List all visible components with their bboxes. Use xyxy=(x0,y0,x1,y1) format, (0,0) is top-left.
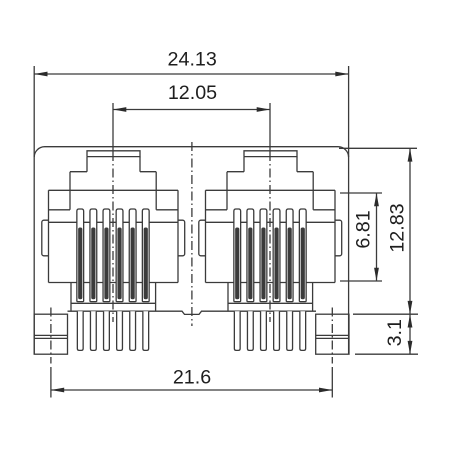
center line of part xyxy=(191,142,193,326)
left mounting post xyxy=(34,314,67,354)
right post board lines xyxy=(316,335,349,338)
arrow 24.13 left xyxy=(34,72,47,77)
solder leg at x=93.35 xyxy=(90,311,96,350)
contact slot at x=106.45 xyxy=(103,209,110,302)
shelf line xyxy=(49,221,179,223)
right jack J2 opening (copy) xyxy=(199,151,342,351)
contact slot at x=132.65 xyxy=(129,209,136,302)
dim 21.6 line xyxy=(51,389,332,391)
contact slot at x=145.75 xyxy=(142,209,149,302)
svg-text:12.83: 12.83 xyxy=(387,203,409,252)
contact slot at x=93.35 xyxy=(90,209,97,302)
center line right jack xyxy=(269,103,271,152)
contact wire at x=106.45 xyxy=(104,228,108,300)
connector body outline xyxy=(34,147,348,355)
contact wire at x=93.35 xyxy=(91,228,95,300)
latch tab slot xyxy=(87,151,140,157)
contact wire at x=145.75 xyxy=(144,228,148,300)
dim 6.81 line xyxy=(376,193,378,281)
lower contact cavity floor xyxy=(71,302,156,304)
arrow 3.1 top xyxy=(408,314,413,327)
svg-text:6.81: 6.81 xyxy=(353,210,375,248)
opening bottom edge xyxy=(49,282,179,284)
opening top edge xyxy=(49,189,179,191)
solder leg at x=106.45 xyxy=(104,311,110,350)
svg-text:24.13: 24.13 xyxy=(168,49,217,71)
arrow 12.05 left xyxy=(113,107,126,112)
center line left post xyxy=(50,308,52,364)
solder leg at x=145.75 xyxy=(143,311,149,350)
lower contact cavity walls xyxy=(71,283,156,312)
arrow 12.83 top xyxy=(408,148,413,161)
dim 3.1 witness line xyxy=(355,353,418,355)
dim 12.83 line xyxy=(409,148,411,314)
contact slot at x=80.25 xyxy=(77,209,84,302)
notch inner walls xyxy=(70,190,156,210)
tab side walls xyxy=(87,157,140,172)
arrow 21.6 right xyxy=(319,388,332,393)
left post board lines xyxy=(34,335,67,338)
dim 24.13 witness lines xyxy=(34,66,348,157)
svg-text:21.6: 21.6 xyxy=(173,367,211,389)
dim 3.1 line xyxy=(409,314,411,354)
arrow 6.81 bottom xyxy=(374,268,379,281)
arrow 12.05 right xyxy=(257,107,270,112)
solder leg at x=132.65 xyxy=(130,311,136,350)
body bottom edge with centre jog xyxy=(68,311,317,314)
contact wire at x=80.25 xyxy=(78,228,82,300)
contact slot at x=119.55 xyxy=(116,209,123,302)
solder leg at x=80.25 xyxy=(77,311,83,350)
right side tab xyxy=(178,220,185,256)
dim 12.83 witness lines xyxy=(339,148,418,314)
solder leg at x=119.55 xyxy=(117,311,123,350)
left side tab xyxy=(42,220,49,256)
upper shoulders xyxy=(70,171,156,173)
dim 6.81 witness lines xyxy=(340,193,382,281)
center line left jack xyxy=(112,103,114,152)
left jack J1 opening xyxy=(42,151,185,351)
dim 12.05 line xyxy=(113,109,270,111)
arrow 12.83 bottom xyxy=(408,301,413,314)
arrow 21.6 left xyxy=(51,388,64,393)
dim 24.13 line xyxy=(34,73,348,75)
contact wire at x=132.65 xyxy=(131,228,135,300)
svg-text:3.1: 3.1 xyxy=(384,319,406,346)
outer side walls xyxy=(49,190,179,282)
center line right post xyxy=(331,308,333,364)
dim 21.6 witness lines xyxy=(51,367,332,398)
mid walls xyxy=(70,172,156,191)
svg-text:12.05: 12.05 xyxy=(168,82,217,104)
right mounting post xyxy=(316,314,349,354)
side ledges xyxy=(49,209,179,211)
arrow 6.81 top xyxy=(374,193,379,206)
arrow 3.1 bottom xyxy=(408,341,413,354)
contact wire at x=119.55 xyxy=(117,228,121,300)
arrow 24.13 right xyxy=(335,72,348,77)
